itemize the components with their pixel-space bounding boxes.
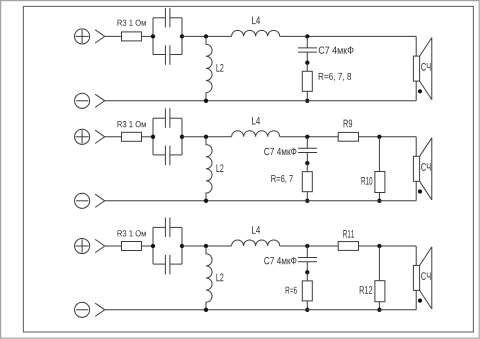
label R12 (section 3) [360, 286, 373, 294]
label C7 4uF (section 3) [264, 257, 296, 264]
capacitor C7 (section 3) [298, 246, 317, 272]
label R3 1 Om (section 2) [118, 121, 146, 127]
capacitor top branch wires (section 3) [153, 226, 182, 228]
inductor L2 (section 2) [206, 137, 212, 201]
capacitor C7 (section 1) [298, 36, 317, 62]
loudspeaker SCh (section 2) [413, 138, 431, 200]
capacitor top plates (section 1) [165, 8, 170, 28]
bottom rail wire (section 3) [105, 309, 417, 311]
terminal - (section 2) [75, 193, 90, 208]
label C7 4uF (section 2) [264, 148, 296, 155]
capacitor bottom plates (section 3) [165, 255, 170, 275]
node R bottom on rail (section 2) [305, 199, 309, 203]
capacitor bottom plates (section 1) [165, 45, 170, 65]
inductor L2 (section 1) [206, 36, 212, 100]
label R3 1 Om (section 1) [118, 20, 146, 26]
label L4 (section 3) [252, 226, 260, 234]
input arrow > (section 3, +) [95, 239, 105, 252]
label R10 (section 2) [362, 177, 373, 185]
inductor L4 (section 1) [232, 30, 280, 36]
inductor L4 (section 3) [232, 240, 280, 246]
capacitor bottom plates (section 2) [165, 146, 170, 166]
wire C-pair to L4 (section 1) [182, 35, 232, 37]
bottom rail wire (section 1) [105, 100, 417, 102]
speaker polarity dot (section 1) [418, 89, 422, 93]
node C7-R junction (section 2) [305, 161, 309, 165]
node L2 bottom (section 3) [204, 308, 208, 312]
capacitor top plates (section 2) [165, 108, 170, 128]
node R bottom on rail (section 1) [305, 99, 309, 103]
wire R3 to C-pair (section 2) [142, 136, 154, 138]
node L2 top (section 1) [204, 34, 208, 38]
inductor L4 (section 2) [232, 131, 280, 137]
input arrow > (section 3, -) [95, 303, 105, 316]
capacitor top branch wires (section 1) [153, 17, 182, 19]
wire C-pair to L4 (section 3) [182, 245, 232, 247]
bottom rail wire (section 2) [105, 200, 417, 202]
resistor R11 (section 3) [338, 242, 358, 251]
input arrow > (section 2, +) [95, 130, 105, 143]
label R3 1 Om (section 3) [118, 230, 146, 236]
label L2 (section 2) [216, 164, 223, 172]
wire R11 to speaker (section 3) [359, 245, 417, 247]
wire L4 to C7 node and on (section 2) [280, 136, 339, 138]
wire speaker to bottom rail (section 3) [415, 290, 417, 309]
node C7 top (section 1) [305, 34, 309, 38]
input arrow > (section 1, +) [95, 30, 105, 43]
node R12 top (section 3) [377, 244, 381, 248]
wire L4 to C7 node and on (section 3) [280, 245, 339, 247]
capacitor pair frame left (section 1) [152, 18, 154, 55]
capacitor pair frame right (section 3) [181, 227, 183, 264]
terminal - (section 1) [75, 93, 90, 108]
terminal + (section 2) [75, 129, 90, 144]
wire input to R3 (section 3) [105, 245, 122, 247]
resistor R under C7 (section 3) [302, 272, 312, 310]
resistor R3 (section 3) [122, 242, 142, 251]
inductor L2 (section 3) [206, 246, 212, 310]
node L2 top (section 3) [204, 244, 208, 248]
node at C-pair left (section 3) [151, 244, 155, 248]
label R=6 (section 3) [286, 287, 297, 294]
label SCh (section 3) [421, 272, 430, 280]
node C7-R junction (section 1) [305, 61, 309, 65]
capacitor pair frame right (section 2) [181, 118, 183, 155]
node R10 bottom (section 2) [377, 199, 381, 203]
label R=6, 7 (section 2) [271, 175, 292, 183]
label R=6, 7, 8 (section 1) [319, 73, 351, 81]
input arrow > (section 1, -) [95, 94, 105, 107]
label R11 (section 3) [343, 230, 354, 238]
label L2 (section 1) [216, 64, 223, 72]
label SCh (section 1) [421, 63, 430, 71]
terminal - (section 3) [75, 302, 90, 317]
label SCh (section 2) [421, 163, 430, 171]
label R9 (section 2) [344, 120, 353, 128]
node R10 top (section 2) [377, 135, 381, 139]
wire speaker to bottom rail (section 2) [415, 181, 417, 201]
capacitor pair frame right (section 1) [181, 18, 183, 55]
resistor R3 (section 1) [122, 32, 142, 41]
node at C-pair right (section 2) [180, 135, 184, 139]
wire L4 to C7 node and on (section 1) [280, 35, 417, 37]
label L4 (section 1) [252, 17, 260, 25]
capacitor bottom branch wires (section 1) [153, 54, 182, 56]
capacitor C7 (section 2) [298, 137, 317, 163]
resistor R10 (section 2) [375, 137, 385, 201]
resistor R12 (section 3) [375, 246, 385, 310]
node at C-pair left (section 2) [151, 135, 155, 139]
wire R3 to C-pair (section 3) [142, 245, 154, 247]
terminal + (section 1) [75, 29, 90, 44]
input arrow > (section 2, -) [95, 194, 105, 207]
capacitor bottom branch wires (section 3) [153, 263, 182, 265]
speaker polarity dot (section 2) [418, 189, 422, 193]
wire R9 to speaker (section 2) [359, 136, 417, 138]
loudspeaker SCh (section 1) [413, 38, 431, 100]
resistor R9 (section 2) [338, 132, 358, 141]
capacitor top plates (section 3) [165, 218, 170, 238]
label L2 (section 3) [216, 274, 223, 282]
node R bottom on rail (section 3) [305, 308, 309, 312]
node L2 bottom (section 2) [204, 199, 208, 203]
node C7 top (section 2) [305, 135, 309, 139]
node at C-pair right (section 1) [180, 34, 184, 38]
wire down to speaker (section 1) [415, 36, 417, 56]
capacitor top branch wires (section 2) [153, 117, 182, 119]
node L2 top (section 2) [204, 135, 208, 139]
wire R3 to C-pair (section 1) [142, 35, 154, 37]
wire C-pair to L4 (section 2) [182, 136, 232, 138]
node C7 top (section 3) [305, 244, 309, 248]
node R12 bottom (section 3) [377, 308, 381, 312]
resistor R under C7 (section 1) [302, 63, 312, 101]
resistor R3 (section 2) [122, 132, 142, 141]
wire input to R3 (section 1) [105, 35, 122, 37]
speaker polarity dot (section 3) [418, 299, 422, 303]
label L4 (section 2) [252, 117, 260, 125]
terminal + (section 3) [75, 238, 90, 253]
capacitor pair frame left (section 2) [152, 118, 154, 155]
capacitor bottom branch wires (section 2) [153, 154, 182, 156]
node at C-pair right (section 3) [180, 244, 184, 248]
node C7-R junction (section 3) [305, 270, 309, 274]
loudspeaker SCh (section 3) [413, 247, 431, 309]
resistor R under C7 (section 2) [302, 163, 312, 201]
wire input to R3 (section 2) [105, 136, 122, 138]
wire down to speaker (section 3) [415, 246, 417, 265]
capacitor pair frame left (section 3) [152, 227, 154, 264]
wire down to speaker (section 2) [415, 137, 417, 157]
node L2 bottom (section 1) [204, 99, 208, 103]
node at C-pair left (section 1) [151, 34, 155, 38]
label C7 4uF (section 1) [319, 47, 354, 54]
wire speaker to bottom rail (section 1) [415, 81, 417, 101]
